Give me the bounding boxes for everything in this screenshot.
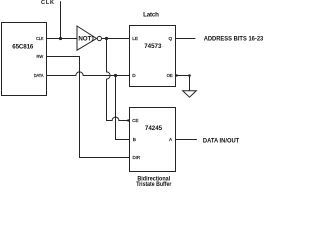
svg-text:65C816: 65C816	[12, 44, 34, 51]
wire U2 OE pin right and down to ground	[176, 76, 190, 91]
svg-text:B: B	[133, 137, 136, 142]
svg-text:Q: Q	[168, 36, 172, 41]
pin dot U3 CE	[127, 119, 129, 121]
IC U1 65C816 body	[2, 23, 47, 96]
svg-text:Latch: Latch	[143, 12, 159, 19]
svg-text:DATA: DATA	[34, 73, 45, 78]
NOT gate NOT1 inversion bubble	[97, 36, 101, 40]
ground symbol	[183, 91, 197, 97]
wire DATA net: U1 DATA pin to U2 D pin with hop over RW vertical	[47, 72, 130, 76]
wire D-to-B vertical: junction on DATA wire down to U3 B pin	[116, 76, 130, 140]
wire U1 CLK pin to NOT1 input	[47, 38, 78, 40]
wire NOT1 output to U2 LE pin	[102, 38, 130, 40]
svg-text:DATA IN/OUT: DATA IN/OUT	[203, 137, 239, 144]
svg-text:Tristate Buffer: Tristate Buffer	[136, 181, 172, 188]
svg-text:RW: RW	[37, 54, 44, 59]
NOT gate NOT1 triangle	[77, 26, 97, 50]
junction dot LE tee	[105, 37, 108, 40]
svg-text:LE: LE	[132, 36, 138, 41]
pin dot U2 OE	[176, 74, 178, 76]
junction dot CLK tee	[59, 37, 62, 40]
svg-text:CLK: CLK	[41, 0, 54, 6]
svg-text:ADDRESS BITS 16-23: ADDRESS BITS 16-23	[204, 36, 264, 43]
junction dot DATA/D tee	[114, 74, 117, 77]
svg-text:D: D	[132, 73, 136, 78]
svg-text:74573: 74573	[144, 43, 162, 50]
svg-text:74245: 74245	[145, 125, 163, 132]
svg-text:DIR: DIR	[133, 155, 141, 160]
wire CLK net vertical drop from CLK label	[60, 1, 62, 38]
svg-text:NOT1: NOT1	[78, 36, 95, 43]
svg-text:OE: OE	[167, 73, 173, 78]
svg-text:CE: CE	[132, 118, 138, 123]
IC U3 74245 buffer body	[130, 108, 176, 172]
wire U3 A pin to DATA IN/OUT label	[176, 139, 197, 141]
wire RW net: U1 RW pin right, down, to U3 DIR pin	[47, 57, 130, 158]
IC U2 74573 latch body	[130, 26, 176, 87]
svg-text:CLK: CLK	[36, 36, 44, 41]
wire LE-to-CE vertical with hop over DATA wire, then to U3 CE pin with hop over B vertical	[107, 39, 130, 121]
junction dot OE corner	[188, 74, 191, 77]
wire U2 Q pin to ADDRESS BITS label	[176, 38, 196, 40]
